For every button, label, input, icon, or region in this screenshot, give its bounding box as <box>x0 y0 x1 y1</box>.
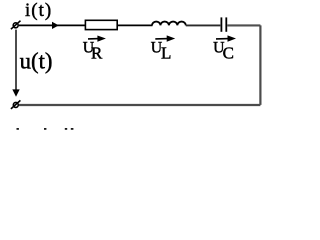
svg-text:i(t): i(t) <box>25 0 52 21</box>
svg-text:u(t): u(t) <box>20 48 53 73</box>
svg-text:C: C <box>223 43 234 62</box>
svg-text:R: R <box>91 43 103 62</box>
svg-text:L: L <box>161 43 171 62</box>
